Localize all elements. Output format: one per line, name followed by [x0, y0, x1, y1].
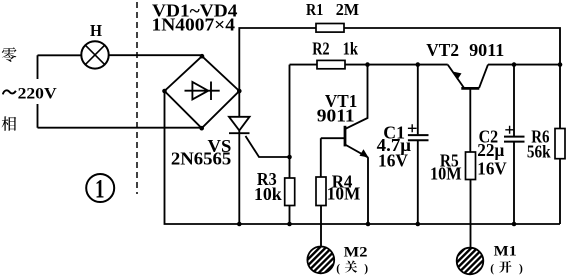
- svg-text:16V: 16V: [378, 151, 408, 171]
- svg-text:220V: 220V: [18, 85, 58, 102]
- svg-text:R1: R1: [306, 0, 323, 19]
- svg-text:56k: 56k: [527, 142, 551, 162]
- svg-text:M1: M1: [494, 244, 517, 260]
- svg-text:): ): [364, 263, 368, 275]
- svg-text:(: (: [490, 263, 494, 275]
- svg-text:): ): [519, 263, 523, 275]
- svg-text:2M: 2M: [336, 0, 360, 19]
- svg-text:1N4007×4: 1N4007×4: [152, 15, 236, 35]
- svg-text:R2: R2: [312, 39, 329, 59]
- svg-text:9011: 9011: [469, 40, 504, 60]
- svg-text:H: H: [90, 21, 102, 40]
- svg-text:10k: 10k: [254, 184, 283, 204]
- svg-text:VT2: VT2: [426, 40, 459, 60]
- svg-text:9011: 9011: [317, 105, 355, 125]
- svg-text:10M: 10M: [327, 184, 361, 204]
- svg-text:22μ: 22μ: [477, 140, 505, 160]
- svg-text:(: (: [336, 263, 340, 275]
- svg-text:10M: 10M: [430, 164, 462, 184]
- svg-text:16V: 16V: [477, 159, 506, 179]
- svg-text:M2: M2: [344, 244, 368, 260]
- svg-text:1: 1: [95, 174, 105, 203]
- svg-text:2N6565: 2N6565: [171, 149, 231, 169]
- svg-text:1k: 1k: [343, 39, 359, 59]
